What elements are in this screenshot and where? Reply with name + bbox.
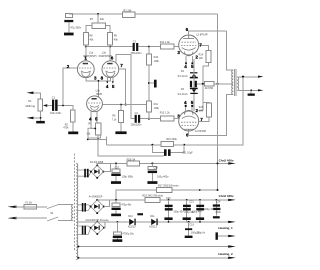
node C17 <box>115 162 117 164</box>
node LV col2 <box>186 199 188 201</box>
transformer T1 core <box>74 154 76 251</box>
svg-text:R18 2W2 2W seria: R18 2W2 2W seria <box>142 194 163 197</box>
node cathode <box>98 80 100 82</box>
wire C1 to grid <box>58 68 78 106</box>
node anode left <box>85 46 87 48</box>
switch S1a <box>47 205 58 209</box>
wire splitter heater pins <box>91 111 97 122</box>
wire B+ vertical <box>217 14 219 190</box>
svg-text:9.6-10.2v: 9.6-10.2v <box>178 93 189 96</box>
svg-text:470µ 40v: 470µ 40v <box>121 204 132 207</box>
switch S1b <box>47 217 58 221</box>
ground (R2) <box>68 132 78 135</box>
wire sec HV taps <box>78 170 91 176</box>
wire pin7 down <box>119 69 126 105</box>
svg-text:F1B 3A: F1B 3A <box>127 158 136 162</box>
wire mains N <box>15 217 47 219</box>
wire R12 bottom <box>120 122 122 131</box>
capacitor C B2 <box>112 200 133 214</box>
svg-text:100: 100 <box>199 57 204 60</box>
zener D4 <box>178 70 198 78</box>
wire mains L <box>15 206 24 208</box>
resistor R1 (rail) <box>122 9 134 18</box>
svg-text:5: 5 <box>112 84 115 89</box>
capacitor C1 100n <box>50 96 62 115</box>
svg-text:C1: C1 <box>52 96 56 100</box>
svg-text:Chn2 400v: Chn2 400v <box>219 158 234 162</box>
arrow output gnd <box>258 89 263 91</box>
mains arrow L <box>8 206 17 209</box>
wire heater1 out <box>218 235 229 237</box>
bridge rectifier B2 <box>89 195 105 214</box>
node grid divider bottom <box>148 118 150 120</box>
resistor R9 40k <box>108 33 119 46</box>
svg-text:4: 4 <box>184 64 187 69</box>
ground (C2) <box>64 33 74 36</box>
svg-text:100µ 40v: 100µ 40v <box>173 210 184 213</box>
svg-text:7: 7 <box>120 63 123 68</box>
node LV col1 <box>168 199 170 201</box>
wire C3 to grid line <box>138 46 160 48</box>
svg-text:R17 2W2/2W seria: R17 2W2/2W seria <box>158 185 179 188</box>
ground (speaker) <box>248 94 255 96</box>
wire input 1 <box>33 93 41 99</box>
svg-text:220µ 6v: 220µ 6v <box>196 231 206 234</box>
arrow 0V out <box>228 221 236 223</box>
svg-text:6: 6 <box>186 27 189 32</box>
wire pin4 to JP1 <box>91 122 96 129</box>
svg-text:F1 3A: F1 3A <box>25 202 32 205</box>
capacitor col2 <box>183 200 203 222</box>
wire R14 bottom <box>203 62 209 110</box>
wire anode drop left <box>85 45 87 61</box>
svg-text:250v100n: 250v100n <box>131 52 142 55</box>
wire switch to primary <box>58 204 71 206</box>
fuse F1B 3A <box>127 158 140 166</box>
wire input 2 <box>33 117 41 119</box>
resistor R14 100 <box>199 50 212 62</box>
resistor R18 <box>142 194 163 202</box>
wire up stub <box>106 137 108 145</box>
svg-text:KD213: KD213 <box>149 226 157 229</box>
svg-text:3: 3 <box>177 50 180 55</box>
arrow heater A <box>228 245 236 247</box>
wire R15 bottom to pin7 <box>199 117 209 122</box>
svg-text:L2 6P14P: L2 6P14P <box>196 32 208 36</box>
svg-text:7: 7 <box>199 43 202 48</box>
wire B1 right vertex riser <box>104 163 111 171</box>
triode L1a <box>77 50 96 77</box>
capacitor C3 100n <box>131 40 142 54</box>
resistor R7 22k <box>90 17 106 28</box>
fuse F1 <box>24 202 37 209</box>
node LV col3 <box>199 199 201 201</box>
wire C4 to grid line <box>140 118 160 120</box>
svg-text:2: 2 <box>67 64 70 69</box>
arrow heater B <box>228 257 236 259</box>
wire grid to upper tube <box>174 46 179 48</box>
svg-text:100k: 100k <box>154 60 160 63</box>
resistor R12 7.1k <box>112 111 124 123</box>
svg-text:160k log: 160k log <box>25 104 35 108</box>
wire R7 left lead <box>86 26 92 33</box>
wire bias chain <box>193 59 195 111</box>
ground (input) <box>36 121 45 124</box>
wire fuse to switch <box>36 206 47 208</box>
wire heater line B <box>78 257 229 259</box>
wire primary leads <box>72 205 74 221</box>
ground (C B2) <box>111 214 121 217</box>
node B+ tap <box>217 83 219 85</box>
resistor R13b 1.2k <box>160 112 174 122</box>
svg-text:C17: C17 <box>115 167 120 170</box>
svg-text:L1b: L1b <box>102 50 107 54</box>
wire heater line A <box>78 246 229 248</box>
node R17 end <box>217 189 219 191</box>
capacitor C17 <box>111 163 134 181</box>
wire R2 top <box>63 106 73 111</box>
svg-text:5: 5 <box>95 116 98 121</box>
transformer T2 output <box>232 69 239 96</box>
resistor R13a 1.0k <box>160 41 174 49</box>
svg-text:C19: C19 <box>189 223 194 226</box>
svg-text:100: 100 <box>199 109 204 112</box>
resistor R10 100k <box>146 54 159 65</box>
svg-text:4700µ 16v: 4700µ 16v <box>122 232 134 235</box>
wire to R15 <box>203 101 209 104</box>
arrow heater1 <box>228 235 236 237</box>
triode L1c phase splitter <box>87 88 103 111</box>
pentode L2a upper EL84 <box>179 32 208 56</box>
wire R7 right lead <box>106 26 111 33</box>
svg-text:P1: P1 <box>28 99 32 103</box>
svg-text:D14: D14 <box>128 215 133 218</box>
node divider mid <box>148 82 150 84</box>
wire HV rail <box>97 163 228 165</box>
svg-text:7.1k: 7.1k <box>112 119 117 122</box>
svg-text:22k: 22k <box>100 17 105 21</box>
capacitor col4 220n <box>213 200 222 219</box>
capacitor C2 47u 350v <box>64 13 81 32</box>
wire lower anode down <box>189 94 234 135</box>
capacitor C18 <box>148 163 170 181</box>
wire R16 left <box>107 144 161 146</box>
wire R12 top <box>120 105 122 111</box>
wire wiper to C1 <box>47 105 52 107</box>
wire pin2 lower <box>199 110 203 112</box>
svg-text:R7: R7 <box>90 17 94 21</box>
node C18 <box>151 162 153 164</box>
resistor R15 100 <box>199 103 212 117</box>
svg-text:4k7/2W: 4k7/2W <box>205 87 214 90</box>
svg-text:R13 1.2k: R13 1.2k <box>160 112 171 115</box>
svg-text:R10: R10 <box>154 56 159 59</box>
capacitor AC2 bars <box>82 203 86 212</box>
input arrow 1 <box>27 92 34 95</box>
wire R16 right <box>174 144 185 146</box>
node bias-vert <box>202 83 204 85</box>
wire 0V line <box>78 221 229 223</box>
svg-text:100µ 385v: 100µ 385v <box>122 176 134 179</box>
ground (R12) <box>115 131 126 134</box>
wire pot bottom <box>40 111 42 121</box>
svg-text:1: 1 <box>84 56 87 61</box>
svg-text:Heating_1: Heating_1 <box>218 226 233 230</box>
svg-text:R12 1.0k: R12 1.0k <box>160 41 171 44</box>
capacitor AC3 bars <box>82 226 86 235</box>
capacitor heater bar <box>216 232 218 239</box>
svg-text:100n 160v: 100n 160v <box>50 112 62 115</box>
node rail-corner <box>115 199 117 201</box>
wire node down-right <box>98 139 164 156</box>
node feedback tap <box>242 76 244 78</box>
wire stub left of node <box>88 138 107 140</box>
node heater B <box>77 257 79 259</box>
node LV col4 <box>215 199 217 201</box>
svg-text:C24: C24 <box>216 201 221 204</box>
resistor JP1 <box>86 123 100 136</box>
svg-text:L1a: L1a <box>89 50 94 54</box>
node HV-B+ <box>217 162 219 164</box>
svg-text:R1 2W: R1 2W <box>123 9 131 13</box>
svg-text:5: 5 <box>191 100 194 105</box>
wire sec top <box>239 76 259 78</box>
zener D2 <box>178 88 198 96</box>
wire sec LV1 taps <box>78 205 91 211</box>
svg-text:4: 4 <box>184 100 187 105</box>
capacitor C11 10u <box>152 145 193 156</box>
node C1-R2 <box>62 105 64 107</box>
svg-text:C20: C20 <box>166 197 171 200</box>
ground (C17) <box>111 181 121 184</box>
pin stubs lower heaters <box>185 105 187 107</box>
node R17 mid <box>199 189 201 191</box>
node pin7 join <box>125 104 127 106</box>
node 0V col1 <box>168 221 170 223</box>
wire JP1 bottom <box>97 135 99 140</box>
svg-text:C21: C21 <box>189 201 194 204</box>
wire gnd stub <box>250 90 252 93</box>
triode L1b <box>99 50 119 77</box>
wire switch b to primary <box>58 219 71 221</box>
wire divider bottom <box>148 112 150 119</box>
ground (C B3) <box>113 239 123 242</box>
svg-text:4×1N4002/P: 4×1N4002/P <box>89 195 103 198</box>
resistor R17 <box>157 185 179 193</box>
capacitor col3 <box>196 200 215 222</box>
bridge rectifier B3 <box>85 219 109 235</box>
svg-text:3: 3 <box>94 76 97 81</box>
node 0V col3 <box>199 221 201 223</box>
svg-text:D11: D11 <box>150 215 155 218</box>
node heater A <box>77 246 79 248</box>
pin stubs upper heaters <box>185 56 187 63</box>
node anode right <box>109 46 111 48</box>
node pot gnd <box>40 117 42 119</box>
arrow Chn2 330v <box>228 199 236 201</box>
connector J5 outline <box>88 128 101 138</box>
wire splitter cathode line <box>102 104 146 106</box>
svg-text:250v100n: 250v100n <box>131 124 142 127</box>
node splitter-R12 <box>120 104 122 106</box>
wire anode tap to C4 <box>116 54 134 118</box>
svg-text:9.6-10.2v: 9.6-10.2v <box>178 75 189 78</box>
wire R2 bottom <box>72 122 74 131</box>
wire R7 feed <box>97 14 99 23</box>
svg-text:470k: 470k <box>63 127 69 130</box>
svg-text:4: 4 <box>89 116 92 121</box>
wire upper anode to transformer <box>227 31 234 70</box>
wire sec LV2 taps <box>78 226 91 234</box>
capacitor col1 <box>164 197 184 222</box>
wire cathode join <box>86 77 111 97</box>
svg-text:C11 10µF: C11 10µF <box>182 152 193 155</box>
svg-text:Heating_2: Heating_2 <box>218 252 233 256</box>
svg-text:L2 6P14P: L2 6P14P <box>195 129 207 133</box>
svg-text:R11: R11 <box>154 103 159 106</box>
capacitor AC1 bars <box>84 169 88 178</box>
wire rail 330v <box>97 199 229 201</box>
resistor R2 470k <box>63 110 75 129</box>
svg-text:6N2P: 6N2P <box>96 93 102 96</box>
svg-text:100k: 100k <box>154 107 160 110</box>
capacitor orphan bar <box>137 213 143 215</box>
node bridge3 out <box>117 221 119 223</box>
capacitor C4 100n <box>131 112 142 126</box>
wire heater stubs L1b <box>106 77 114 84</box>
wire anode line <box>86 46 133 48</box>
input arrow 2 <box>27 117 34 120</box>
resistor R11 100k <box>146 101 159 112</box>
resistor R 4.7k <box>204 82 214 91</box>
node C19 <box>188 221 190 223</box>
diode D11 KD213 <box>149 215 157 229</box>
wire R17 right <box>172 189 218 191</box>
wire bias to 4k7 <box>197 83 204 85</box>
wire sec bottom <box>239 89 259 91</box>
arrow Chn2 400v <box>228 162 236 164</box>
wire B3 right vertex riser <box>104 222 105 228</box>
svg-text:100µ 40v: 100µ 40v <box>192 210 203 213</box>
wire screen/cathode right <box>199 46 209 51</box>
wire 4k7 to B+ <box>214 83 233 85</box>
wire R17 branch <box>116 190 157 200</box>
mains arrow N <box>8 217 17 220</box>
svg-text:220n: 220n <box>216 211 222 214</box>
svg-text:C18: C18 <box>153 167 158 170</box>
wire B2 right vertex riser <box>104 200 110 207</box>
resistor R8 40k <box>83 33 94 46</box>
bridge rectifier B1 <box>90 161 105 179</box>
svg-text:47µ 350v: 47µ 350v <box>70 25 81 29</box>
capacitor bias pair <box>190 81 197 87</box>
svg-text:100µ 400v: 100µ 400v <box>157 175 169 178</box>
wire divider top <box>148 47 150 55</box>
transformer T1 secondary <box>76 164 78 260</box>
capacitor C19 <box>185 222 200 236</box>
capacitor mid bar <box>154 80 157 88</box>
svg-text:Chn2 330v: Chn2 330v <box>219 194 234 198</box>
svg-text:JP1: JP1 <box>88 123 93 126</box>
diode D14 KD213 <box>128 215 136 229</box>
pentode L2b lower EL84 <box>179 110 207 133</box>
ground (C18) <box>147 181 157 184</box>
node grid divider top <box>148 46 150 48</box>
node JP1 left <box>94 128 96 130</box>
resistor R16 220k <box>161 138 178 147</box>
wire anode up (pin 6) <box>189 31 227 35</box>
wire feedback vertical <box>184 77 243 145</box>
svg-text:S1: S1 <box>50 211 54 215</box>
wire mid stub <box>149 82 154 84</box>
node sec gnd <box>250 89 252 91</box>
svg-text:6: 6 <box>111 56 114 61</box>
svg-text:R16 220k: R16 220k <box>166 138 177 141</box>
svg-text:L1b: L1b <box>96 88 101 92</box>
transformer T1 primary <box>72 205 74 221</box>
arrow output hot <box>258 76 263 78</box>
ground (C19) <box>185 236 193 238</box>
wire B+ top rail <box>69 13 218 15</box>
svg-text:KD213: KD213 <box>128 226 136 229</box>
node C11 left <box>151 144 153 146</box>
node C11 right <box>183 144 185 146</box>
wire anode drop right <box>109 45 111 61</box>
svg-text:8: 8 <box>101 76 104 81</box>
node feedback left <box>97 138 99 140</box>
potentiometer P1 160k <box>25 99 47 111</box>
wire heater arrows lower EL84 <box>0 0 1 1</box>
wire grid to lower tube <box>174 118 179 120</box>
capacitor C B3 <box>113 222 135 239</box>
svg-text:4: 4 <box>106 84 109 89</box>
node stub <box>87 139 89 141</box>
wire divider middle <box>148 65 150 101</box>
node rail-R7 <box>97 13 99 15</box>
